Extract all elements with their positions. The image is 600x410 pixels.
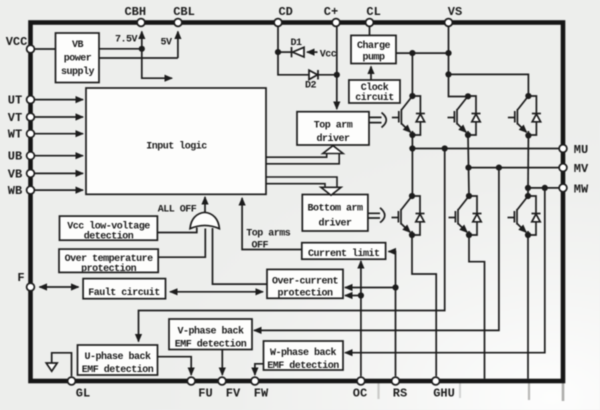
wire W phase rail	[527, 135, 529, 196]
wire MW output line	[528, 187, 560, 189]
block Vcc low-voltage detection	[60, 216, 158, 240]
pin WT	[27, 130, 35, 138]
wire RS node to over-current protection	[345, 287, 396, 289]
wire MV sense down-left to V-phase EMF detection	[254, 168, 499, 331]
svg-text:VT: VT	[8, 111, 22, 125]
wire VT to input logic	[35, 116, 83, 118]
svg-text:Current limit: Current limit	[308, 248, 380, 260]
wire node to D1 cathode	[278, 51, 291, 53]
svg-text:protection: protection	[277, 288, 333, 300]
svg-text:FW: FW	[254, 387, 269, 401]
junction dot Q6 collector	[525, 193, 531, 199]
pin FU	[187, 377, 195, 385]
svg-text:WB: WB	[8, 184, 22, 198]
svg-text:5V: 5V	[160, 38, 172, 49]
wire MW sense down-left to W-phase EMF detection	[345, 188, 545, 353]
svg-text:RS: RS	[393, 387, 407, 401]
svg-text:Charge: Charge	[357, 40, 391, 52]
svg-text:Clock: Clock	[361, 82, 389, 94]
pin C+	[332, 19, 340, 27]
svg-text:F: F	[17, 271, 24, 285]
wire Vcc to D1	[307, 51, 318, 53]
wire V-phase EMF detection to FV pin	[221, 350, 223, 376]
svg-text:MV: MV	[574, 162, 589, 176]
svg-text:driver: driver	[318, 218, 352, 230]
svg-text:EMF detection: EMF detection	[175, 339, 247, 351]
svg-text:Input logic: Input logic	[146, 141, 207, 153]
junction dot charge pump out	[409, 50, 415, 56]
junction dot Q1 emitter	[409, 132, 415, 138]
junction dot OC over-current tap	[358, 292, 364, 298]
pin OC	[357, 377, 365, 385]
wire 7.5V branch down right arrow	[142, 49, 172, 78]
svg-text:D2: D2	[305, 81, 317, 92]
wire W-phase EMF detection to FW pin	[255, 364, 264, 375]
wire GL pin to ground	[52, 353, 72, 377]
wire U-phase EMF detection to FU pin	[158, 357, 192, 375]
gate U2 OR (ALL OFF)	[190, 212, 219, 228]
wire F pin to fault circuit double arrow	[40, 286, 79, 288]
junction dot Q1 collector	[409, 93, 415, 99]
svg-text:MU: MU	[574, 143, 588, 157]
photo artifact drip below border mid	[459, 381, 461, 398]
wire UT to input logic	[35, 99, 83, 101]
wire V phase rail	[468, 135, 469, 196]
pin UB	[27, 152, 35, 160]
wire OC node to over-current protection	[345, 295, 361, 297]
junction dot MU tap	[409, 145, 415, 151]
svg-text:VB: VB	[72, 40, 84, 51]
block fault circuit	[83, 279, 165, 299]
svg-text:W-phase back: W-phase back	[270, 347, 337, 359]
svg-text:V-phase back: V-phase back	[177, 326, 244, 338]
svg-text:supply: supply	[61, 66, 95, 78]
wire MV output line	[469, 167, 561, 169]
svg-text:FU: FU	[198, 387, 212, 401]
svg-text:UT: UT	[8, 94, 22, 108]
svg-text:Vcc: Vcc	[320, 50, 337, 61]
junction dot Q2 collector	[465, 93, 471, 99]
wire over temperature protection to OR gate	[158, 229, 205, 258]
wire Q4 emitter to GHU pin	[412, 235, 436, 376]
junction dot MW sense tap	[542, 185, 548, 191]
pin FW	[251, 377, 259, 385]
wire Q6 emitter to bottom rail	[527, 235, 529, 379]
wire OC pin up to current limit	[360, 261, 362, 376]
ground	[46, 363, 57, 371]
svg-text:CBH: CBH	[124, 5, 146, 19]
junction dot Q3 emitter	[525, 132, 531, 138]
photo artifact drip below border right	[528, 381, 530, 400]
transistor Q5 bottom V IGBT with freewheel diode	[449, 196, 482, 235]
svg-text:MW: MW	[574, 182, 589, 196]
svg-text:Fault circuit: Fault circuit	[88, 287, 160, 299]
wire VB supply 5V output to CBL	[99, 32, 178, 59]
wire Vcc low-voltage detection to OR gate	[157, 228, 196, 233]
junction dot VS top	[445, 50, 451, 56]
junction dot Q5 emitter	[466, 232, 472, 238]
svg-text:FV: FV	[226, 387, 241, 401]
wire fault circuit to over-current protection double arrow	[170, 291, 263, 293]
diode D2	[309, 70, 318, 80]
wire Q5 emitter to bottom rail	[469, 235, 485, 379]
wire WT to input logic	[35, 133, 83, 135]
wire VB supply 7.5V output to CBH	[99, 32, 142, 49]
svg-text:detection: detection	[84, 231, 134, 243]
junction dot RS over-current tap	[392, 284, 398, 290]
wire charge pump node down to Q1 collector	[411, 53, 413, 96]
wire MU output line	[412, 148, 560, 150]
photo artifact drip below border corner	[562, 381, 565, 401]
transistor Q3 top W IGBT with freewheel diode	[508, 96, 541, 135]
svg-text:CBL: CBL	[173, 5, 195, 19]
svg-text:7.5V: 7.5V	[115, 35, 138, 46]
block over temperature protection	[59, 249, 158, 272]
svg-text:Top arm: Top arm	[314, 121, 353, 132]
junction dot C+ node	[334, 72, 340, 78]
pin VT	[27, 113, 35, 121]
wire VB to input logic	[35, 172, 83, 174]
block over-current protection	[267, 269, 343, 298]
pin VB	[27, 170, 35, 178]
svg-text:VB: VB	[8, 167, 22, 181]
junction dot Q4 collector	[409, 193, 415, 199]
junction dot Q4 emitter	[409, 232, 415, 238]
pin WB	[27, 186, 35, 194]
wire MU sense down-left to U-phase EMF detection	[139, 149, 445, 342]
svg-text:circuit: circuit	[355, 92, 394, 104]
pin GHU	[432, 377, 440, 385]
junction dot MV tap	[465, 165, 471, 171]
wire clock circuit up to charge pump	[370, 67, 372, 81]
block VB power supply	[56, 33, 100, 83]
junction dot MU sense tap	[442, 145, 448, 151]
svg-text:GHU: GHU	[433, 387, 455, 401]
svg-text:ALL OFF: ALL OFF	[158, 205, 197, 216]
pin VCC	[27, 45, 35, 53]
svg-text:GL: GL	[76, 387, 90, 401]
svg-text:driver: driver	[316, 133, 350, 145]
svg-text:Top arms: Top arms	[246, 229, 291, 240]
svg-text:CL: CL	[366, 5, 380, 19]
wire charge pump output to VS rail	[396, 52, 449, 54]
svg-text:U-phase back: U-phase back	[84, 351, 151, 363]
junction dot Q6 emitter	[525, 232, 531, 238]
svg-text:pump: pump	[362, 53, 385, 64]
svg-text:CD: CD	[278, 5, 292, 19]
wire D2 cathode to C+ line	[319, 74, 337, 76]
svg-text:VS: VS	[448, 5, 462, 19]
pin CBH	[137, 19, 145, 27]
transistor Q4 bottom U IGBT with freewheel diode	[392, 196, 425, 235]
driver bracket bottom arm	[368, 208, 385, 223]
junction dot Q3 collector	[525, 93, 531, 99]
svg-text:EMF detection: EMF detection	[267, 360, 339, 372]
block current limit	[302, 243, 386, 260]
block charge pump	[351, 35, 396, 63]
driver bracket top arm	[369, 113, 386, 128]
wire WB to input logic	[35, 189, 83, 191]
pin MU	[559, 145, 567, 153]
svg-text:UB: UB	[8, 150, 22, 164]
svg-text:VCC: VCC	[6, 35, 28, 49]
wire RS pin up and left to current limit	[389, 252, 396, 377]
svg-text:EMF detection: EMF detection	[82, 364, 154, 376]
block input logic U1	[86, 88, 266, 194]
block top arm driver	[297, 112, 369, 145]
wire C+ pin down to top arm driver	[336, 27, 338, 109]
chip outline border	[31, 23, 564, 382]
junction dot Q5 collector	[466, 193, 472, 199]
wire CD node down to D2 anode	[278, 52, 309, 75]
transistor Q2 top V IGBT with freewheel diode	[448, 96, 481, 135]
pin MV	[559, 164, 567, 172]
wire VS pin down and bend to Q2 collector	[449, 27, 469, 97]
block bottom arm driver	[302, 195, 368, 232]
pin FV	[218, 377, 226, 385]
wire U phase rail	[411, 135, 413, 196]
pin GL	[68, 377, 76, 385]
bus arrow input logic to top arm driver	[266, 146, 343, 164]
junction dot Q2 emitter	[465, 132, 471, 138]
block U-phase back EMF detection	[78, 345, 158, 375]
bus arrow input logic to bottom arm driver	[266, 177, 341, 195]
svg-text:protection: protection	[81, 263, 137, 275]
pin CD	[274, 19, 282, 27]
svg-text:C+: C+	[324, 5, 338, 19]
pin RS	[392, 377, 400, 385]
diode D1	[292, 47, 305, 57]
wire UB to input logic	[35, 155, 83, 157]
junction dot CD node	[275, 49, 281, 55]
svg-text:Over-current: Over-current	[272, 277, 339, 288]
junction dot VS branch	[445, 71, 451, 77]
pin VS	[445, 19, 453, 27]
wire OR gate ALL OFF to input logic	[204, 197, 206, 213]
photo artifact drip below border left	[377, 381, 379, 399]
svg-text:OC: OC	[353, 387, 367, 401]
pin F	[27, 283, 35, 291]
svg-text:Bottom arm: Bottom arm	[307, 204, 363, 215]
junction dot MV sense tap	[496, 165, 502, 171]
block W-phase back EMF detection	[264, 341, 344, 370]
transistor Q1 top U IGBT with freewheel diode	[392, 96, 425, 135]
wire VS branch to Q3 collector	[449, 74, 529, 96]
wire over-current to OR gate	[213, 228, 268, 284]
pin UT	[27, 96, 35, 104]
svg-text:WT: WT	[8, 128, 22, 142]
wire CD pin down to node	[277, 27, 279, 52]
svg-text:power: power	[64, 54, 92, 65]
pin MW	[559, 184, 567, 192]
wire CL pin down to charge pump	[369, 27, 371, 36]
junction dot 7.5V node	[139, 46, 145, 52]
transistor Q6 bottom W IGBT with freewheel diode	[508, 196, 541, 235]
block clock circuit	[349, 80, 400, 103]
block V-phase back EMF detection	[169, 319, 252, 350]
wire VCC to VB supply	[35, 48, 56, 50]
pin CL	[366, 19, 374, 27]
junction dot MW tap	[525, 185, 531, 191]
wire current limit to top arms off	[242, 198, 302, 250]
pin CBL	[174, 19, 182, 27]
